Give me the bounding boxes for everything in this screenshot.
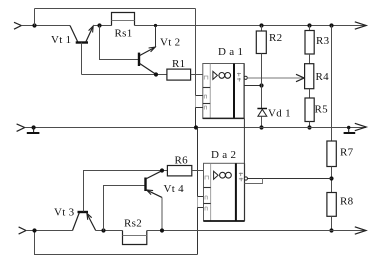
wire supply between Da2 pins [197,197,199,208]
wire top rail left segment [21,25,70,27]
junction node Vt2 emitter [154,72,158,76]
transistor Vt4 [146,171,163,231]
pin stub Da1 supply lower [196,107,203,109]
resistor R5 [305,98,314,122]
op-amp Da2 [204,163,245,221]
resistor R7 [327,141,336,167]
wire R6 to Da2 pin [192,170,204,172]
junction node Da2 output [329,176,333,180]
junction node Vt4 emitter bottom [160,228,164,232]
wire R5 to mid rail [309,122,311,128]
pin stub Da1 supply upper [196,95,203,97]
svg-text:Vt 3: Vt 3 [54,207,75,219]
svg-text:R4: R4 [316,71,330,83]
input arrow top-left [14,22,21,29]
junction node Vd1 bottom [259,125,263,129]
svg-text:R3: R3 [316,35,330,47]
wire R4 to R5 [309,89,311,98]
svg-text:D a 2: D a 2 [211,149,236,161]
junction node Vt2 collector [154,24,157,27]
svg-text:R1: R1 [172,58,185,70]
wire supply vertical lower [197,128,199,197]
svg-text:R7: R7 [340,147,354,159]
wire from node x103 up to Vt4 base [104,186,146,231]
junction node top-left [32,23,36,27]
svg-text:D a 1: D a 1 [218,46,243,58]
wire bottom rail segment C [147,230,366,232]
wire Da2 feedback loop [245,179,263,184]
ground symbol left [27,128,40,134]
pin output circle Da2 [244,177,247,180]
svg-text:Rs1: Rs1 [115,28,133,40]
wire Vt1 base lead [81,43,83,75]
wire Da1 to Da2 right column [243,118,245,163]
wire R1 net horizontal [82,74,167,76]
resistor R3 [305,26,314,55]
junction node R2 top [259,23,263,27]
transistor Vt3 [73,212,96,231]
wire supply between Da1 pins [195,96,197,108]
arrow bottom-right [355,227,366,234]
arrow mid-left [17,124,25,131]
svg-text:R5: R5 [315,104,329,116]
svg-text:Rs2: Rs2 [124,218,142,230]
wire hat vertical left [34,9,36,26]
svg-text:Vt 2: Vt 2 [160,36,180,48]
junction node R3 top [307,23,311,27]
arrow bottom-left [19,227,26,234]
wire bottom hat [35,231,198,255]
wire Vt3 base lead up [84,171,168,212]
svg-text:R6: R6 [175,154,189,166]
transistor Vt2 [139,26,156,75]
wire supply vertical upper [195,9,197,96]
wire mid rail [25,127,366,129]
svg-text:Vt 1: Vt 1 [51,34,71,46]
resistor R8 [327,193,336,217]
pin stub Da2 supply upper [198,196,204,198]
resistor R1 [167,69,191,80]
resistor Rs2 [123,231,147,245]
junction node right column top [329,23,333,27]
wire R2 to Vd1 [261,54,263,109]
wire top rail segment C [135,25,367,27]
wire bottom rail segment B [96,230,123,232]
wire supply vertical to bottom hat [197,208,199,255]
arrow mid-right [355,123,366,130]
resistor R2 [256,26,266,54]
junction node bottom-left [32,228,36,232]
arrow top-right [355,22,366,29]
wire supply vertical to mid rail [195,108,197,128]
junction node mid-left ground [31,125,35,129]
junction node R6 left [160,168,164,172]
ground symbol right [344,128,356,134]
resistor Rs1 [112,13,135,26]
wire R3 to R4 [309,54,311,64]
pin output circle Da1 [244,76,247,79]
wiper arrow into R4 [296,74,304,81]
wire R1 to Da1 pin [191,74,203,76]
wire R7 to R8 [331,167,333,193]
wire right column upper [331,26,333,142]
junction node at x103 [101,228,105,232]
wire hat horizontal top [35,8,196,10]
diode Vd1 [257,109,267,128]
svg-text:R8: R8 [340,196,354,208]
wire from node x99 down to Vt2 base [100,26,140,60]
wire top rail segment B [93,25,111,27]
svg-text:Vt 4: Vt 4 [164,183,185,195]
junction node R5 bottom [307,125,311,129]
wire Da2 output to right column [248,178,332,180]
op-amp Da1 [203,64,244,119]
junction node at x99 [97,23,101,27]
transistor Vt1 [70,26,93,43]
resistor R6 [167,166,191,176]
wire R8 to bottom rail [331,216,333,230]
potentiometer R4 [305,64,314,89]
wire Da1 pin to Vd1 node [244,85,261,87]
wire Da1 output to R4 wiper [247,77,303,79]
junction node mid-right ground [347,126,350,129]
junction node supply mid rail [194,125,198,129]
wire bottom rail left segment [26,230,73,232]
svg-text:Vd 1: Vd 1 [268,107,291,119]
junction node Vd1 top [259,83,263,87]
pin stub Da2 supply lower [198,207,204,209]
junction node R8 bottom [329,228,333,232]
svg-text:R2: R2 [269,32,282,44]
